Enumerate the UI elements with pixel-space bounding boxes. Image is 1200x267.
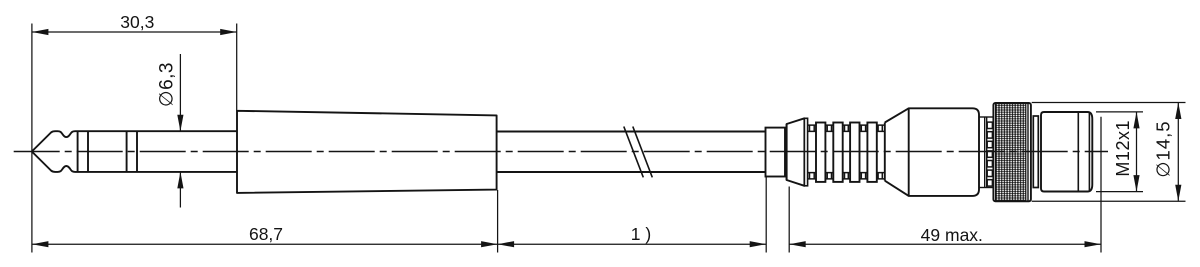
jack plug 6.3mm body outline	[32, 131, 237, 172]
cable	[497, 132, 766, 173]
dimension 68,7	[32, 243, 498, 245]
dimension 1 )	[498, 243, 767, 245]
svg-text:1 ): 1 )	[631, 224, 651, 244]
svg-text:30,3: 30,3	[120, 12, 154, 32]
svg-text:∅6,3: ∅6,3	[157, 62, 178, 107]
cone to connector body	[885, 108, 909, 196]
bellows gap lines	[808, 125, 885, 179]
dimension 30,3	[32, 31, 237, 33]
cable break marks	[624, 127, 653, 178]
washer ring	[1033, 116, 1038, 188]
dimension d6,3	[179, 54, 181, 208]
svg-text:∅14,5: ∅14,5	[1153, 120, 1174, 177]
svg-text:49 max.: 49 max.	[921, 225, 983, 245]
dimension 49 max.	[789, 243, 1101, 245]
centerline	[14, 151, 1108, 153]
strain relief cone	[237, 111, 497, 193]
bellows rib 2	[833, 123, 842, 182]
serrated neck	[979, 117, 993, 188]
flared collar	[787, 118, 805, 186]
cable entry ferrule	[766, 128, 786, 177]
dia 14,5 dimension	[1032, 103, 1186, 202]
extension lines	[32, 24, 1101, 253]
serration teeth	[987, 122, 992, 186]
bellows rib 1	[816, 123, 825, 182]
knurled coupling ring	[993, 103, 1031, 201]
thread cylinder M12	[1041, 112, 1092, 192]
svg-text:68,7: 68,7	[249, 224, 283, 244]
jack plug insulator ring lines	[78, 131, 137, 172]
bellows rib 3	[850, 123, 859, 182]
connector body overmold	[909, 108, 979, 196]
bellows rib 4	[867, 123, 876, 182]
svg-text:M12x1: M12x1	[1113, 120, 1133, 177]
M12x1 dimension	[1096, 112, 1143, 192]
